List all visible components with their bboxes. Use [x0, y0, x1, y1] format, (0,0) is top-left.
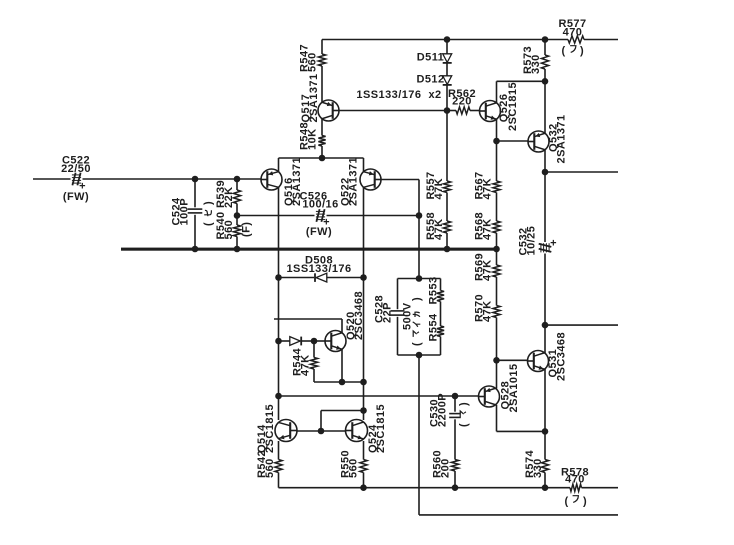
svg-text:(: ( — [458, 423, 470, 427]
svg-text:200: 200 — [440, 458, 452, 478]
svg-text:): ) — [203, 201, 215, 205]
svg-text:(: ( — [411, 342, 423, 346]
svg-text:2SA1371: 2SA1371 — [556, 114, 568, 163]
svg-text:10K: 10K — [307, 128, 319, 150]
svg-text:100P: 100P — [179, 198, 191, 226]
svg-text:47K: 47K — [300, 354, 312, 376]
svg-text:2SA1371: 2SA1371 — [308, 73, 320, 122]
svg-text:2SC3468: 2SC3468 — [556, 332, 568, 381]
svg-text:10/25: 10/25 — [526, 226, 538, 256]
svg-text:47K: 47K — [482, 300, 494, 322]
svg-text:R554: R554 — [428, 313, 440, 342]
svg-text:D511: D511 — [417, 52, 445, 64]
svg-text:2SA1371: 2SA1371 — [291, 157, 303, 206]
svg-text:560: 560 — [223, 220, 235, 240]
svg-text:47K: 47K — [482, 178, 494, 200]
svg-text:47K: 47K — [433, 218, 445, 240]
svg-text:47K: 47K — [482, 259, 494, 281]
svg-text:330: 330 — [530, 54, 542, 74]
svg-text:): ) — [411, 297, 423, 301]
svg-text:47K: 47K — [433, 178, 445, 200]
svg-text:): ) — [458, 402, 470, 406]
svg-text:(: ( — [203, 222, 215, 226]
svg-text:470: 470 — [565, 473, 585, 485]
svg-text:(F): (F) — [241, 222, 253, 237]
svg-text:2SC3468: 2SC3468 — [353, 291, 365, 340]
svg-text:22P: 22P — [382, 302, 394, 323]
svg-text:2SC1815: 2SC1815 — [375, 404, 387, 453]
svg-text:560: 560 — [264, 458, 276, 478]
svg-text:+: + — [550, 238, 557, 250]
svg-text:560: 560 — [348, 458, 360, 478]
svg-text:22/50: 22/50 — [61, 163, 91, 175]
svg-text:560: 560 — [307, 52, 319, 72]
svg-text:2SA1371: 2SA1371 — [348, 157, 360, 206]
svg-text:1SS133/176: 1SS133/176 — [286, 263, 351, 275]
svg-text:1SS133/176 x2: 1SS133/176 x2 — [356, 89, 441, 101]
svg-text:R553: R553 — [428, 276, 440, 304]
svg-text:2SC1815: 2SC1815 — [507, 82, 519, 131]
svg-text:D512: D512 — [416, 74, 444, 86]
svg-text:): ) — [580, 45, 584, 57]
svg-text:100/16: 100/16 — [302, 199, 338, 211]
svg-text:470: 470 — [563, 26, 583, 38]
svg-text:500V: 500V — [402, 302, 414, 330]
svg-text:47K: 47K — [482, 218, 494, 240]
svg-text:2200P: 2200P — [437, 393, 449, 427]
svg-text:2SA1015: 2SA1015 — [508, 363, 520, 412]
svg-text:+: + — [323, 217, 330, 229]
svg-text:(: ( — [561, 45, 565, 57]
svg-text:(: ( — [564, 496, 568, 508]
svg-text:): ) — [583, 496, 587, 508]
svg-text:220: 220 — [452, 96, 472, 108]
svg-text:+: + — [79, 181, 86, 193]
svg-text:330: 330 — [532, 458, 544, 478]
svg-text:22K: 22K — [223, 186, 235, 208]
svg-text:(FW): (FW) — [63, 191, 89, 203]
svg-text:2SC1815: 2SC1815 — [264, 404, 276, 453]
